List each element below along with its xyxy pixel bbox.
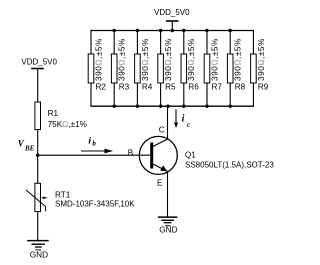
svg-text:75KΩ,±1%: 75KΩ,±1% — [48, 120, 87, 129]
resistor R9 — [251, 31, 269, 107]
svg-text:SS8050LT(1.5A),SOT-23: SS8050LT(1.5A),SOT-23 — [185, 161, 274, 170]
power VDD_5V0 (left) bar symbol — [31, 68, 44, 70]
transistor Q1 — [139, 136, 177, 174]
svg-text:390Ω,±5%: 390Ω,±5% — [209, 38, 219, 81]
resistor R6 — [181, 31, 199, 107]
svg-text:R7: R7 — [212, 82, 223, 91]
node VBE label — [18, 139, 35, 153]
ground (left) — [27, 241, 49, 260]
wire collector to bottom bus — [167, 106, 169, 139]
svg-text:c: c — [187, 121, 190, 129]
svg-text:b: b — [92, 140, 96, 148]
label i_b — [88, 137, 96, 148]
svg-text:R3: R3 — [119, 82, 130, 91]
pin label E — [157, 178, 163, 187]
svg-text:C: C — [159, 126, 165, 135]
svg-text:V: V — [18, 139, 25, 149]
svg-text:390Ω,±5%: 390Ω,±5% — [256, 38, 266, 81]
wire R1 to node VBE — [37, 130, 39, 156]
svg-text:i: i — [88, 137, 91, 147]
wire VDD to R1 — [37, 69, 39, 103]
svg-text:390Ω,±5%: 390Ω,±5% — [163, 38, 173, 81]
ground (emitter) — [158, 217, 178, 234]
pin label C — [159, 126, 165, 135]
wire top bus — [90, 30, 254, 32]
svg-text:390Ω,±5%: 390Ω,±5% — [140, 38, 150, 81]
svg-text:Q1: Q1 — [185, 151, 196, 160]
wire bottom bus — [90, 105, 254, 107]
svg-text:390Ω,±5%: 390Ω,±5% — [93, 38, 103, 81]
svg-text:RT1: RT1 — [55, 190, 71, 199]
svg-text:VDD_5V0: VDD_5V0 — [21, 58, 57, 67]
svg-text:GND: GND — [159, 225, 177, 234]
power VDD_5V0 (top center) bar symbol — [166, 20, 179, 22]
svg-text:E: E — [157, 178, 163, 187]
label Q1 — [185, 151, 196, 160]
wire RT1 to ground — [37, 212, 39, 241]
svg-text:VDD_5V0: VDD_5V0 — [154, 8, 190, 17]
svg-text:B: B — [128, 149, 134, 158]
junction dots top bus — [113, 29, 232, 32]
power VDD_5V0 (top center) label — [154, 8, 190, 17]
resistor R4 — [135, 31, 153, 107]
junction dot node VBE — [36, 154, 39, 157]
svg-text:R5: R5 — [165, 82, 176, 91]
resistor R5 — [158, 31, 176, 107]
svg-text:GND: GND — [30, 251, 48, 260]
svg-text:390Ω,±5%: 390Ω,±5% — [117, 38, 127, 81]
svg-text:R2: R2 — [96, 82, 107, 91]
svg-text:390Ω,±5%: 390Ω,±5% — [186, 38, 196, 81]
svg-text:R8: R8 — [235, 82, 246, 91]
thermistor RT1 — [26, 183, 135, 211]
current arrow i_b — [81, 149, 113, 154]
junction dots bottom bus — [113, 105, 232, 108]
svg-text:390Ω,±5%: 390Ω,±5% — [233, 38, 243, 81]
resistor R1 — [35, 102, 87, 130]
resistor R2 — [88, 31, 106, 107]
resistor R3 — [111, 31, 129, 107]
svg-text:R6: R6 — [188, 82, 199, 91]
power VDD_5V0 (left) label — [21, 58, 57, 67]
label Q1 value — [185, 161, 274, 170]
wire node VBE to RT1 — [37, 155, 39, 183]
wire base — [38, 154, 151, 156]
pin label B — [128, 149, 134, 158]
wire VDD to top bus — [171, 21, 173, 31]
svg-text:BE: BE — [24, 144, 35, 152]
svg-text:i: i — [182, 113, 185, 124]
svg-text:R1: R1 — [48, 109, 59, 118]
svg-text:R4: R4 — [142, 82, 153, 91]
resistor R7 — [204, 31, 222, 107]
label i_c — [182, 113, 191, 129]
svg-text:SMD-103F-3435F,10K: SMD-103F-3435F,10K — [55, 200, 135, 209]
current arrow i_c — [174, 110, 178, 129]
svg-text:R9: R9 — [258, 82, 269, 91]
resistor R8 — [227, 31, 245, 107]
wire emitter to ground — [167, 171, 169, 217]
